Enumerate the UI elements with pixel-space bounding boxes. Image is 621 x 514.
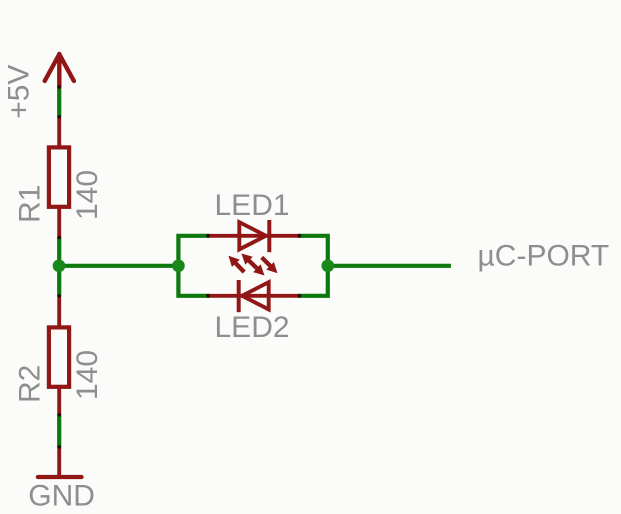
svg-text:+5V: +5V — [3, 65, 36, 119]
svg-text:R1: R1 — [14, 185, 47, 223]
LED D2 (LED2, anode right) — [208, 280, 300, 312]
svg-text:LED1: LED1 — [215, 189, 290, 222]
wire R1 to node to R2 — [57, 237, 61, 296]
pin junction dot R2 bottom — [57, 413, 61, 417]
node junction at divider midpoint — [53, 259, 66, 272]
wire supply pin to R1 pin — [57, 87, 61, 118]
pin junction dot LED1 right — [298, 234, 302, 238]
wire node to LED loop — [59, 264, 178, 268]
node junction left of LED loop — [172, 259, 185, 272]
node junction right of LED loop — [321, 259, 334, 272]
light emission arrow lower-right single — [260, 256, 277, 273]
wire LED loop left half — [178, 236, 209, 296]
pin junction dot R1 bottom — [57, 236, 61, 240]
pin junction dot LED1 left — [206, 234, 210, 238]
light emission double arrow — [241, 254, 264, 276]
svg-text:140: 140 — [71, 350, 104, 400]
pin junction dot R2 top — [57, 294, 61, 298]
pin junction dot R1 top — [57, 115, 61, 119]
LED D1 (LED1, anode left) — [208, 220, 300, 252]
wire LED loop right half — [298, 236, 328, 296]
pin junction dot LED2 right — [298, 294, 302, 298]
light emission arrow upper-left single — [229, 256, 246, 274]
pin junction dot supply — [57, 85, 61, 89]
svg-text:140: 140 — [71, 170, 104, 220]
svg-text:µC-PORT: µC-PORT — [478, 239, 610, 272]
pin junction dot LED2 left — [206, 294, 210, 298]
wire LED loop to port — [328, 264, 451, 268]
wire R2 to ground pin — [57, 414, 61, 447]
pin junction dot ground — [57, 445, 61, 449]
svg-text:R2: R2 — [14, 365, 47, 403]
resistor R2 — [49, 296, 69, 415]
svg-text:LED2: LED2 — [215, 311, 290, 344]
resistor R1 — [49, 117, 69, 238]
+5V supply symbol — [45, 54, 74, 87]
ground symbol — [38, 447, 82, 477]
svg-text:GND: GND — [28, 480, 95, 513]
